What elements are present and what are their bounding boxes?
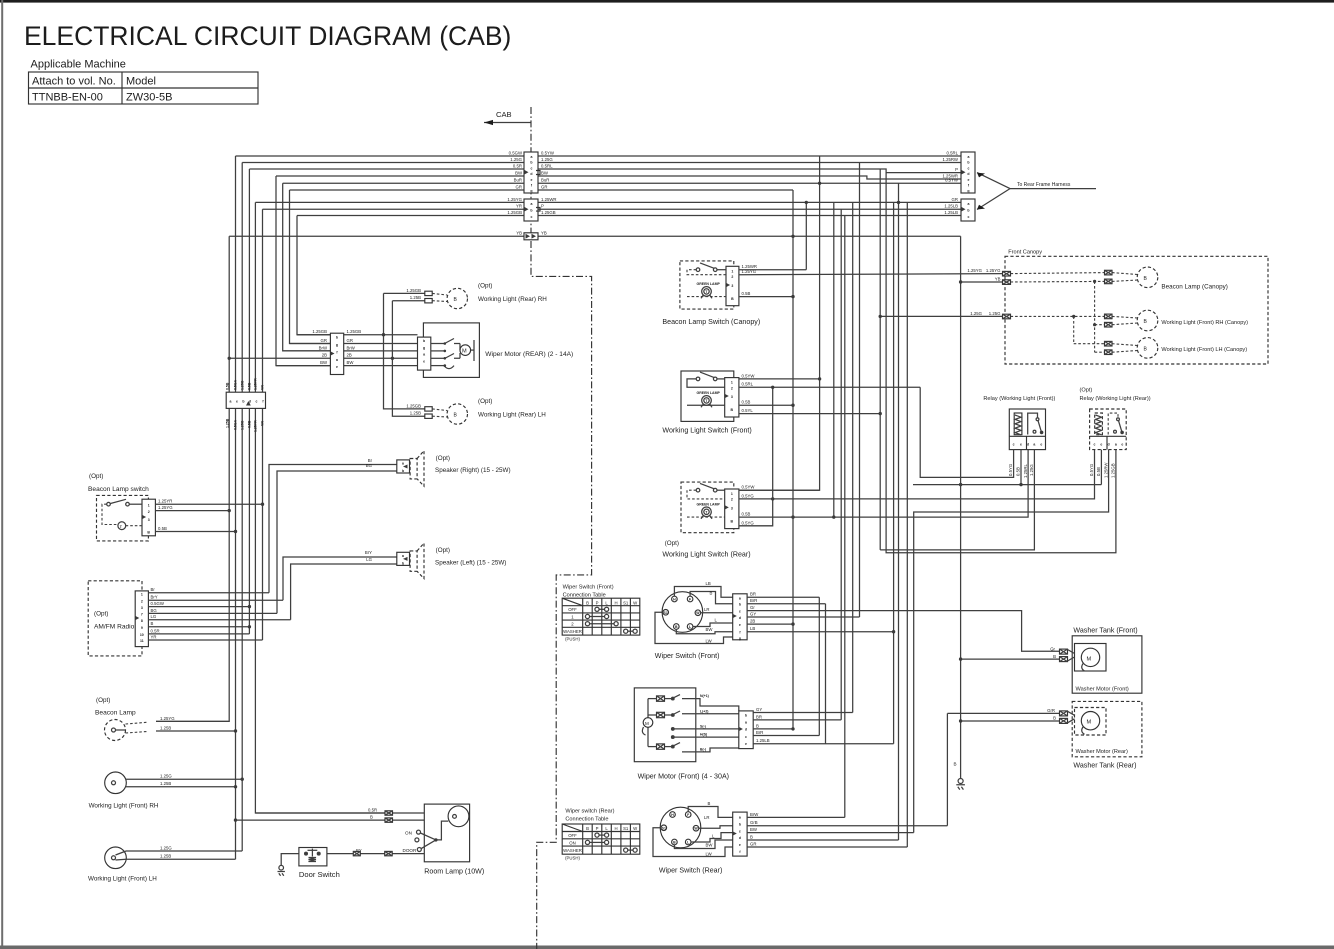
svg-text:a: a (968, 202, 970, 206)
svg-text:a: a (402, 462, 404, 466)
svg-text:b: b (336, 336, 338, 340)
svg-text:1.25WR: 1.25WR (541, 197, 557, 202)
svg-text:BrR: BrR (756, 730, 763, 735)
svg-text:3: 3 (731, 284, 733, 288)
svg-text:S(-): S(-) (700, 725, 706, 729)
svg-text:(Opt): (Opt) (478, 283, 492, 290)
svg-text:a: a (531, 202, 533, 206)
svg-text:BrR: BrR (750, 598, 757, 603)
svg-text:GR: GR (516, 184, 522, 189)
svg-text:GrB: GrB (750, 820, 758, 825)
svg-text:g: g (739, 636, 741, 640)
svg-text:GrR: GrR (1047, 708, 1055, 713)
svg-text:Gr: Gr (1050, 646, 1055, 651)
svg-text:B: B (1053, 654, 1056, 659)
svg-text:1.25G: 1.25G (1029, 464, 1034, 476)
svg-text:1.25B: 1.25B (160, 725, 171, 730)
svg-text:d: d (739, 836, 741, 840)
svg-text:2B: 2B (347, 353, 352, 358)
svg-text:YR: YR (261, 385, 265, 390)
svg-text:Wiper Switch (Front): Wiper Switch (Front) (563, 584, 614, 590)
svg-text:b: b (739, 603, 741, 607)
svg-text:BrY: BrY (365, 550, 372, 555)
svg-text:g: g (530, 189, 532, 193)
svg-text:b: b (530, 208, 532, 212)
svg-text:Beacon Lamp: Beacon Lamp (95, 710, 136, 717)
svg-text:1.25YG: 1.25YG (158, 505, 173, 510)
svg-text:BR: BR (750, 592, 756, 597)
svg-text:0.5YG: 0.5YG (742, 520, 755, 525)
svg-text:0.5B: 0.5B (225, 382, 229, 390)
svg-text:W: W (633, 600, 638, 605)
svg-text:YB: YB (516, 231, 522, 236)
svg-text:e: e (423, 359, 425, 363)
svg-text:0.5GA: 0.5GA (234, 419, 238, 430)
svg-text:e: e (1100, 442, 1102, 446)
svg-text:1.25YG: 1.25YG (967, 268, 982, 273)
svg-text:g: g (336, 343, 338, 347)
svg-text:e: e (739, 623, 741, 627)
svg-text:0.5YW: 0.5YW (742, 485, 756, 490)
svg-text:Washer Motor (Rear): Washer Motor (Rear) (1076, 749, 1128, 755)
svg-text:a: a (739, 816, 741, 820)
svg-text:3: 3 (141, 606, 143, 610)
svg-text:(Opt): (Opt) (94, 611, 108, 618)
svg-text:1: 1 (731, 381, 733, 385)
svg-text:a: a (739, 596, 741, 600)
svg-text:(Opt): (Opt) (1080, 388, 1093, 394)
svg-text:3: 3 (731, 395, 733, 399)
svg-text:1.25LB: 1.25LB (944, 204, 958, 209)
svg-text:c: c (1013, 442, 1015, 446)
svg-text:0.5B: 0.5B (158, 526, 167, 531)
svg-text:0.5B: 0.5B (248, 420, 252, 428)
svg-text:a: a (531, 155, 533, 159)
svg-text:B: B (370, 815, 373, 820)
svg-text:(PUSH): (PUSH) (565, 856, 580, 861)
svg-text:(Opt): (Opt) (478, 398, 492, 405)
svg-text:LR: LR (704, 815, 710, 820)
svg-text:a: a (745, 720, 747, 724)
svg-text:BrW: BrW (347, 345, 356, 350)
svg-text:0.5R: 0.5R (368, 807, 377, 812)
svg-text:e: e (1020, 442, 1022, 446)
svg-text:0.5GW: 0.5GW (151, 601, 165, 606)
svg-text:Working Light (Front) LH: Working Light (Front) LH (88, 876, 157, 883)
svg-text:B: B (586, 826, 589, 831)
svg-text:1.25G: 1.25G (970, 311, 982, 316)
svg-text:e: e (531, 178, 533, 182)
svg-text:Working Light (Rear) LH: Working Light (Rear) LH (478, 411, 546, 418)
svg-text:B: B (1144, 319, 1148, 325)
svg-text:LG: LG (151, 614, 157, 619)
svg-text:B: B (586, 600, 589, 605)
svg-text:0.5YW: 0.5YW (541, 150, 555, 155)
svg-text:1.25G: 1.25G (989, 311, 1001, 316)
svg-text:0.5B: 0.5B (742, 512, 751, 517)
svg-text:0.5YG: 0.5YG (1008, 463, 1013, 476)
svg-text:(Opt): (Opt) (436, 455, 450, 462)
svg-text:e: e (739, 843, 741, 847)
svg-text:0.5GW: 0.5GW (509, 150, 523, 155)
svg-text:10: 10 (140, 633, 144, 637)
svg-text:0.5YG: 0.5YG (1089, 463, 1094, 476)
svg-text:GY: GY (750, 611, 756, 616)
svg-text:1.25RW: 1.25RW (1103, 462, 1108, 478)
svg-text:Working Light (Front) RH: Working Light (Front) RH (89, 803, 159, 810)
svg-text:BW: BW (706, 843, 714, 848)
svg-text:c: c (256, 400, 258, 404)
svg-text:1.25GB: 1.25GB (541, 210, 556, 215)
svg-text:BR: BR (756, 714, 762, 719)
svg-text:YB: YB (995, 277, 1001, 282)
svg-text:1.25YR: 1.25YR (254, 378, 258, 390)
svg-text:W: W (633, 826, 638, 831)
svg-text:b: b (402, 469, 404, 473)
svg-text:8: 8 (141, 619, 143, 623)
svg-text:Connection Table: Connection Table (563, 592, 606, 598)
svg-text:B: B (1053, 716, 1056, 721)
svg-text:YR: YR (261, 421, 265, 426)
svg-text:LG: LG (366, 557, 372, 562)
svg-text:BrY: BrY (151, 595, 158, 600)
svg-text:c: c (531, 166, 533, 170)
svg-text:BrW: BrW (319, 345, 328, 350)
svg-text:g: g (423, 346, 425, 350)
svg-text:0.5GA: 0.5GA (234, 379, 238, 390)
svg-text:H: H (615, 826, 618, 831)
svg-text:B: B (1144, 346, 1148, 352)
svg-text:H: H (615, 600, 618, 605)
svg-text:L: L (715, 618, 718, 623)
svg-text:1.25YG: 1.25YG (160, 716, 175, 721)
svg-text:S1: S1 (662, 826, 666, 830)
svg-text:1.25YR: 1.25YR (254, 420, 258, 432)
svg-text:1.25B: 1.25B (225, 418, 229, 428)
svg-text:P: P (596, 826, 599, 831)
svg-text:Speaker (Right) (15 - 25W): Speaker (Right) (15 - 25W) (435, 467, 511, 474)
svg-text:(PUSH): (PUSH) (565, 637, 580, 642)
svg-text:L: L (712, 833, 715, 838)
svg-text:1.25GB: 1.25GB (312, 329, 327, 334)
svg-text:d: d (1108, 442, 1110, 446)
svg-text:M: M (1087, 656, 1092, 662)
svg-text:GREEN LAMP: GREEN LAMP (697, 282, 721, 286)
svg-text:0.5B: 0.5B (1016, 467, 1021, 476)
svg-text:B: B (708, 801, 711, 806)
svg-text:e: e (236, 400, 238, 404)
svg-text:1.25LB: 1.25LB (944, 210, 958, 215)
svg-text:1.25YG: 1.25YG (986, 268, 1001, 273)
svg-text:1.25B: 1.25B (410, 295, 421, 300)
svg-text:S1: S1 (623, 826, 629, 831)
svg-text:GR: GR (347, 338, 353, 343)
svg-text:d: d (1027, 442, 1029, 446)
svg-text:(Opt): (Opt) (89, 473, 103, 480)
svg-text:0.5RL: 0.5RL (947, 150, 959, 155)
svg-text:2: 2 (731, 498, 733, 502)
svg-text:1: 1 (731, 269, 733, 273)
svg-text:1.25B: 1.25B (410, 411, 421, 416)
svg-text:b: b (967, 161, 969, 165)
svg-text:b: b (402, 561, 404, 565)
svg-text:a: a (423, 353, 425, 357)
svg-text:1.25RL: 1.25RL (1023, 464, 1028, 478)
svg-text:Washer Tank (Rear): Washer Tank (Rear) (1073, 761, 1136, 769)
svg-text:B: B (756, 723, 759, 728)
svg-text:1.25GB: 1.25GB (1111, 463, 1116, 478)
svg-text:YR: YR (151, 634, 157, 639)
svg-text:LW: LW (706, 851, 713, 856)
svg-text:GR: GR (321, 338, 327, 343)
svg-text:2B: 2B (322, 353, 327, 358)
svg-text:Attach to vol. No.: Attach to vol. No. (32, 76, 116, 88)
svg-text:BW: BW (320, 360, 328, 365)
svg-text:P: P (541, 204, 544, 209)
svg-text:e: e (968, 178, 970, 182)
svg-text:YR: YR (516, 204, 522, 209)
svg-text:c: c (1094, 442, 1096, 446)
svg-text:YB: YB (541, 231, 547, 236)
svg-text:g: g (967, 189, 969, 193)
svg-text:Room Lamp (10W): Room Lamp (10W) (424, 868, 484, 876)
svg-text:S1: S1 (664, 611, 668, 615)
svg-text:L(+2): L(+2) (700, 709, 708, 713)
svg-text:GREEN LAMP: GREEN LAMP (697, 391, 721, 395)
svg-text:Model: Model (126, 76, 156, 88)
svg-text:1.25B: 1.25B (160, 854, 171, 859)
svg-text:a: a (1115, 442, 1117, 446)
svg-text:BG: BG (151, 608, 158, 613)
svg-text:B: B (454, 413, 458, 419)
svg-text:d: d (745, 728, 747, 732)
svg-text:0.5RL: 0.5RL (742, 382, 754, 387)
svg-text:a: a (402, 554, 404, 558)
svg-text:Working Light Switch (Rear): Working Light Switch (Rear) (662, 551, 750, 559)
svg-text:Applicable Machine: Applicable Machine (31, 59, 126, 71)
svg-text:7: 7 (141, 612, 143, 616)
svg-text:H(S): H(S) (700, 733, 707, 737)
svg-text:b: b (242, 400, 244, 404)
svg-text:Working Light Switch (Front): Working Light Switch (Front) (662, 427, 751, 435)
svg-text:Gr: Gr (750, 605, 755, 610)
svg-text:0.5B: 0.5B (248, 382, 252, 390)
svg-text:Connection Table: Connection Table (565, 817, 608, 823)
svg-text:T: T (120, 525, 123, 529)
svg-text:GR: GR (541, 184, 547, 189)
svg-text:(Opt): (Opt) (96, 697, 110, 704)
svg-text:M: M (462, 349, 467, 355)
svg-text:B: B (1144, 276, 1148, 282)
svg-text:Wiper Motor (REAR) (2 - 14A): Wiper Motor (REAR) (2 - 14A) (485, 351, 573, 358)
svg-text:1: 1 (731, 492, 733, 496)
svg-text:1.25G: 1.25G (240, 420, 244, 430)
svg-text:Washer Motor (Front): Washer Motor (Front) (1076, 687, 1129, 693)
svg-text:0.5R: 0.5R (151, 628, 160, 633)
svg-text:1: 1 (148, 504, 150, 508)
svg-text:1.25GB: 1.25GB (406, 288, 421, 293)
svg-text:0.5YW: 0.5YW (742, 373, 756, 378)
svg-text:S1: S1 (623, 600, 629, 605)
svg-text:c: c (968, 215, 970, 219)
svg-text:Working Light (Front) RH (Cano: Working Light (Front) RH (Canopy) (1161, 320, 1248, 326)
svg-text:2: 2 (731, 386, 733, 390)
svg-text:1.25LB: 1.25LB (756, 738, 770, 743)
svg-text:d: d (739, 616, 741, 620)
svg-text:a: a (230, 400, 232, 404)
svg-text:0.5B: 0.5B (1096, 467, 1101, 476)
svg-text:c: c (739, 610, 741, 614)
svg-text:M: M (645, 721, 649, 726)
svg-text:0.5YG: 0.5YG (742, 493, 755, 498)
svg-text:Beacon Lamp Switch (Canopy): Beacon Lamp Switch (Canopy) (662, 318, 760, 326)
svg-text:Wiper switch (Rear): Wiper switch (Rear) (565, 809, 614, 815)
svg-text:Washer Tank (Front): Washer Tank (Front) (1073, 626, 1137, 634)
svg-text:1.25G: 1.25G (510, 157, 522, 162)
svg-text:B: B (750, 834, 753, 839)
svg-text:1: 1 (571, 614, 574, 619)
svg-text:L: L (605, 600, 608, 605)
svg-text:1.25YG: 1.25YG (507, 197, 522, 202)
svg-text:DOOR: DOOR (403, 848, 417, 853)
svg-text:B: B (954, 762, 957, 767)
svg-text:2: 2 (148, 510, 150, 514)
svg-text:e: e (1040, 442, 1042, 446)
svg-text:2: 2 (571, 622, 574, 627)
svg-text:b: b (423, 339, 425, 343)
svg-text:d: d (967, 172, 969, 176)
svg-text:To Rear Frame Harness: To Rear Frame Harness (1017, 182, 1071, 188)
svg-text:GR: GR (750, 841, 756, 846)
svg-text:1.25G: 1.25G (541, 157, 553, 162)
svg-text:TTNBB-EN-00: TTNBB-EN-00 (32, 92, 103, 104)
svg-text:OFF: OFF (568, 607, 577, 612)
svg-text:B: B (151, 621, 154, 626)
svg-text:ON: ON (569, 840, 575, 845)
svg-text:BW: BW (515, 170, 523, 175)
svg-text:c: c (531, 215, 533, 219)
svg-text:N(+1): N(+1) (700, 694, 709, 698)
svg-text:2: 2 (141, 599, 143, 603)
svg-text:b: b (745, 713, 747, 717)
svg-text:WASHER: WASHER (563, 629, 582, 634)
svg-text:1.25B: 1.25B (160, 781, 171, 786)
svg-text:B: B (454, 297, 458, 303)
svg-text:1.25GB: 1.25GB (507, 210, 522, 215)
svg-text:Br: Br (151, 587, 156, 592)
svg-text:0.5YW: 0.5YW (945, 178, 959, 183)
svg-text:B(-): B(-) (700, 748, 706, 752)
svg-text:(Opt): (Opt) (665, 540, 679, 547)
svg-text:3: 3 (731, 506, 733, 510)
svg-text:Working Light (Rear) RH: Working Light (Rear) RH (478, 296, 547, 303)
svg-text:1.25GB: 1.25GB (347, 329, 362, 334)
svg-text:e: e (1121, 442, 1123, 446)
svg-text:1: 1 (141, 592, 143, 596)
svg-text:0.5YL: 0.5YL (742, 408, 754, 413)
svg-text:Wiper Switch (Rear): Wiper Switch (Rear) (659, 867, 722, 875)
svg-text:Relay (Working Light (Front)): Relay (Working Light (Front)) (983, 396, 1055, 402)
svg-text:BW: BW (750, 827, 758, 832)
svg-text:ON: ON (405, 831, 412, 836)
svg-text:1.25GB: 1.25GB (406, 403, 421, 408)
svg-text:c: c (968, 166, 970, 170)
svg-text:LR: LR (704, 607, 710, 612)
svg-text:WASHER: WASHER (563, 848, 582, 853)
svg-text:b: b (739, 822, 741, 826)
svg-text:CAB: CAB (496, 110, 512, 119)
svg-text:(Opt): (Opt) (436, 547, 450, 554)
svg-text:M: M (1087, 720, 1092, 726)
svg-text:P: P (596, 600, 599, 605)
svg-text:LB: LB (750, 626, 755, 631)
svg-text:B: B (710, 591, 713, 596)
svg-text:1.25G: 1.25G (160, 774, 172, 779)
svg-text:2B: 2B (750, 619, 755, 624)
svg-text:Wiper Motor (Front) (4 - 30A): Wiper Motor (Front) (4 - 30A) (638, 772, 729, 780)
svg-text:1.25RW: 1.25RW (943, 157, 959, 162)
svg-text:a: a (968, 155, 970, 159)
svg-text:Beacon Lamp switch: Beacon Lamp switch (88, 486, 149, 493)
svg-text:e: e (336, 365, 338, 369)
svg-text:BuR: BuR (514, 178, 522, 183)
svg-text:1.25G: 1.25G (240, 380, 244, 390)
svg-text:e: e (745, 742, 747, 746)
svg-text:0.5R: 0.5R (513, 163, 522, 168)
svg-text:BuR: BuR (541, 178, 549, 183)
svg-text:0.5B: 0.5B (742, 291, 751, 296)
svg-text:P: P (955, 167, 958, 172)
svg-text:Working Light (Front) LH (Cano: Working Light (Front) LH (Canopy) (1161, 347, 1247, 353)
svg-text:Wiper Switch (Front): Wiper Switch (Front) (655, 652, 720, 660)
svg-text:b: b (530, 161, 532, 165)
svg-text:GY: GY (756, 707, 762, 712)
svg-text:0.5B: 0.5B (742, 400, 751, 405)
svg-text:a: a (336, 358, 338, 362)
svg-text:LB: LB (706, 581, 711, 586)
svg-text:LW: LW (706, 638, 713, 643)
svg-text:3: 3 (148, 518, 150, 522)
svg-text:2: 2 (731, 275, 733, 279)
svg-text:GREEN LAMP: GREEN LAMP (697, 503, 721, 507)
svg-text:Front Canopy: Front Canopy (1008, 250, 1042, 256)
svg-text:L: L (605, 826, 608, 831)
svg-text:d: d (530, 172, 532, 176)
svg-text:a: a (1033, 442, 1035, 446)
svg-text:b: b (967, 208, 969, 212)
svg-text:BW: BW (347, 360, 355, 365)
svg-text:BW: BW (541, 170, 549, 175)
svg-text:BG: BG (366, 463, 373, 468)
svg-text:Speaker (Left) (15 - 25W): Speaker (Left) (15 - 25W) (435, 559, 506, 566)
svg-text:OFF: OFF (568, 833, 577, 838)
svg-text:0.5RL: 0.5RL (541, 163, 553, 168)
svg-text:ZW30-5B: ZW30-5B (126, 92, 172, 104)
svg-text:BW: BW (706, 627, 714, 632)
svg-text:AM/FM Radio: AM/FM Radio (94, 624, 135, 631)
svg-text:BrW: BrW (750, 812, 759, 817)
svg-text:1.25YR: 1.25YR (158, 499, 172, 504)
svg-text:Door Switch: Door Switch (299, 870, 340, 879)
svg-text:Beacon Lamp (Canopy): Beacon Lamp (Canopy) (1161, 284, 1228, 291)
svg-text:Relay (Working Light (Rear)): Relay (Working Light (Rear)) (1080, 396, 1151, 402)
svg-text:1.25G: 1.25G (160, 845, 172, 850)
svg-text:ELECTRICAL CIRCUIT DIAGRAM (CA: ELECTRICAL CIRCUIT DIAGRAM (CAB) (24, 21, 511, 51)
svg-text:c: c (745, 735, 747, 739)
svg-text:9: 9 (141, 626, 143, 630)
svg-text:GR: GR (952, 197, 958, 202)
svg-text:11: 11 (140, 639, 144, 643)
